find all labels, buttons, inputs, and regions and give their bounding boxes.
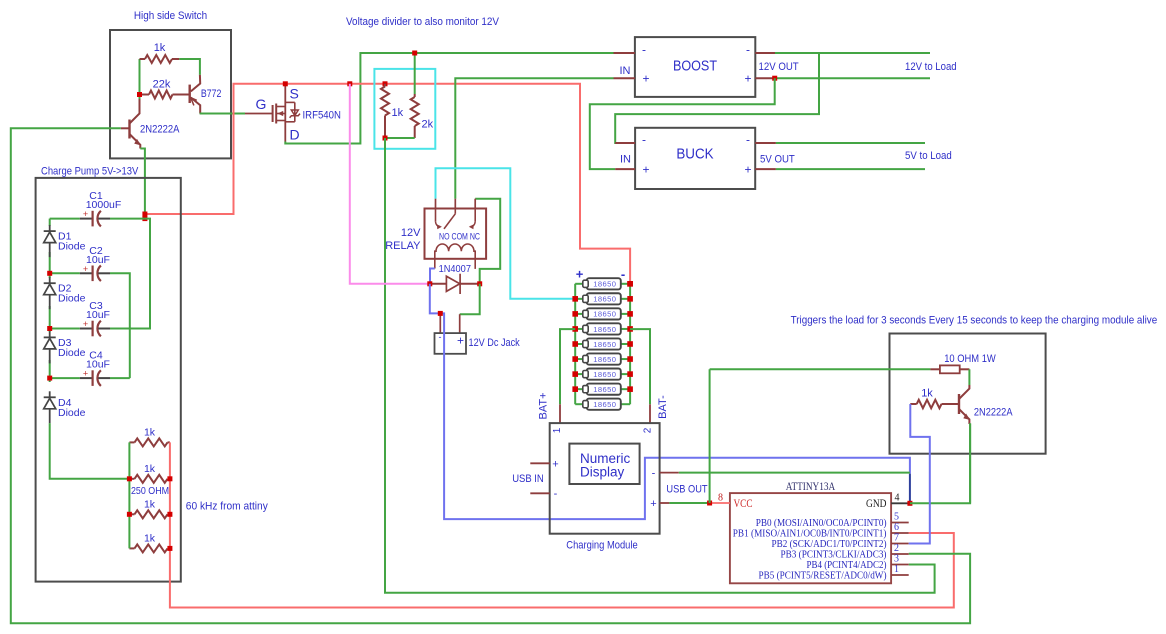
label bank 1k #3 — [144, 498, 156, 510]
wire 12V OUT- to load (green) — [775, 52, 930, 54]
label PB5 — [759, 571, 887, 582]
capacitor C2 — [50, 264, 110, 281]
capacitor C1 — [50, 209, 110, 226]
label PB4 — [807, 560, 887, 571]
label USB IN — [512, 473, 544, 485]
label pin number 8 — [718, 493, 723, 504]
wire 2k top to BOOST IN- line (green vertical) — [414, 53, 416, 94]
wire MOSFET drain loop to BOOST IN- (green) — [285, 53, 635, 144]
junction battery right cell4 — [627, 326, 633, 332]
svg-text:Voltage divider to also monito: Voltage divider to also monitor 12V — [346, 16, 500, 28]
svg-text:1N4007: 1N4007 — [439, 263, 471, 275]
USB OUT minus stub — [660, 472, 679, 474]
svg-text:-: - — [746, 43, 750, 57]
svg-text:2k: 2k — [422, 119, 434, 131]
label bank 1k #2 — [144, 463, 156, 475]
junction at 2k top on green — [412, 51, 417, 56]
label BOOST plus left — [642, 72, 649, 86]
label Charging Module — [566, 540, 637, 552]
trigger title — [791, 315, 1158, 327]
junction pump C2 row — [47, 271, 52, 276]
junction battery right cell7 — [627, 371, 633, 377]
svg-text:7: 7 — [894, 533, 899, 544]
svg-text:-: - — [554, 488, 558, 500]
label divider 1k — [392, 107, 404, 119]
label BUCK minus left — [642, 133, 646, 147]
IC U ATTINY13A box — [730, 493, 891, 583]
label 2N2222A (trigger) — [974, 407, 1013, 419]
label USB IN plus — [552, 458, 558, 470]
diode D4 — [44, 391, 56, 423]
High side Switch enclosure box — [110, 30, 231, 158]
wire VCC to 10 OHM (green) — [710, 368, 931, 370]
svg-text:PB0 (MOSI/AIN0/OC0A/PCINT0): PB0 (MOSI/AIN0/OC0A/PCINT0) — [756, 518, 887, 529]
svg-text:Diode: Diode — [58, 241, 86, 253]
svg-text:5V to Load: 5V to Load — [905, 150, 952, 162]
relay coil left pin stub — [434, 259, 436, 269]
label pin number 7 — [894, 533, 899, 544]
label pin 1 — [552, 427, 563, 433]
junction green at C1 out (lower) — [142, 216, 147, 221]
label BUCK — [676, 147, 714, 163]
junction bank right r2 — [167, 476, 172, 481]
wire Q1 emitter to charge pump (green) — [140, 149, 145, 219]
label D1 — [58, 231, 72, 243]
svg-text:250 OHM: 250 OHM — [131, 485, 169, 497]
svg-text:+: + — [744, 72, 751, 86]
pin 8 VCC stub — [712, 502, 730, 504]
svg-text:B772: B772 — [201, 88, 222, 100]
junction battery right cell1 — [627, 281, 633, 287]
junction battery left cell7 — [572, 371, 578, 377]
resistor R 1k (high side) — [140, 55, 180, 63]
USB IN plus stub — [530, 462, 549, 464]
wire trigger emitter down (green) — [968, 423, 971, 503]
junction bank left r2 — [127, 476, 132, 481]
label USB OUT — [666, 484, 707, 496]
wire 5V OUT+ to load (green) — [776, 168, 925, 170]
label BOOST — [673, 59, 717, 75]
svg-text:Charging Module: Charging Module — [566, 540, 637, 552]
svg-text:6: 6 — [894, 522, 899, 533]
svg-text:IRF540N: IRF540N — [303, 110, 341, 122]
svg-text:5V OUT: 5V OUT — [760, 154, 795, 166]
label C1 — [89, 190, 103, 202]
label GND — [866, 498, 887, 510]
svg-text:1k: 1k — [154, 42, 166, 54]
trigger enclosure box — [890, 334, 1046, 454]
label bank 1k #4 — [144, 532, 156, 544]
junction bank right r3 — [167, 512, 172, 517]
relay K1 12V RELAY — [425, 209, 487, 259]
junction pump C3 row — [47, 326, 52, 331]
display box Numeric Display — [569, 444, 639, 484]
label pin number 6 — [894, 522, 899, 533]
svg-text:+: + — [642, 72, 649, 86]
battery cell 18650 #6 — [575, 353, 630, 364]
junction pump C4 row — [47, 376, 52, 381]
wire 1k-left to 22k junction (green vertical) — [139, 59, 141, 99]
junction VCC node — [707, 501, 712, 506]
label BAT+ — [538, 392, 550, 419]
svg-text:USB OUT: USB OUT — [666, 484, 707, 496]
label D4 — [58, 397, 72, 409]
wire diode cathode to jack plus (green) — [460, 284, 480, 314]
resistor R 22k — [140, 91, 190, 99]
svg-text:10uF: 10uF — [86, 359, 110, 371]
junction battery right cell2 — [627, 296, 633, 302]
label trigger 1k — [921, 388, 933, 400]
label D2 Diode — [58, 293, 86, 305]
diode D1 — [44, 225, 56, 257]
jack minus pin stub — [439, 313, 441, 333]
svg-text:18650: 18650 — [593, 355, 616, 364]
wire VCC feed vertical (green) — [709, 369, 711, 503]
svg-text:1k: 1k — [144, 463, 156, 475]
svg-text:5: 5 — [894, 512, 899, 523]
svg-text:BAT+: BAT+ — [538, 392, 550, 419]
label battery plus — [576, 267, 584, 282]
label BUCK plus left — [642, 163, 649, 177]
label pin 2 — [643, 427, 654, 433]
label BOOST plus right — [744, 72, 751, 86]
svg-text:12V Dc Jack: 12V Dc Jack — [469, 337, 521, 349]
relay coil right pin stub — [474, 259, 476, 269]
svg-text:60 kHz from attiny: 60 kHz from attiny — [186, 501, 268, 513]
junction battery right cell5 — [627, 341, 633, 347]
wire 1k-right to B772 collector (green) — [179, 59, 200, 75]
diode D 1N4007 — [430, 274, 480, 294]
USB OUT plus stub — [660, 502, 670, 504]
svg-text:1k: 1k — [392, 107, 404, 119]
wire USB OUT+ to VCC junction (green) — [669, 502, 709, 504]
svg-text:2: 2 — [643, 427, 654, 433]
label ATTINY13A — [786, 481, 836, 493]
capacitor C4 — [50, 369, 110, 386]
label 5V to Load — [905, 150, 952, 162]
pin 2 PB3 stub — [891, 553, 909, 555]
svg-text:+: + — [552, 458, 558, 470]
svg-text:D: D — [290, 127, 300, 143]
transistor Q B772 — [190, 75, 201, 114]
label C4 — [89, 350, 103, 362]
diode D2 — [44, 277, 56, 309]
voltage divider cyan selection box — [374, 69, 435, 149]
label C3 value — [86, 309, 110, 321]
label BOOST minus left — [642, 43, 646, 57]
wire relay coil to diode anode (blue) — [430, 269, 435, 284]
label D3 — [58, 337, 72, 349]
battery cell 18650 #9 — [575, 399, 630, 410]
svg-text:IN: IN — [620, 154, 631, 166]
svg-text:ATTINY13A: ATTINY13A — [786, 481, 836, 493]
label D — [290, 127, 300, 143]
wire bank left rail (green) — [128, 442, 130, 548]
label pin number 3 — [894, 554, 899, 565]
svg-text:-: - — [439, 332, 442, 342]
svg-text:18650: 18650 — [593, 370, 616, 379]
label 5V OUT — [760, 154, 795, 166]
junction diode anode — [427, 281, 432, 286]
svg-text:-: - — [642, 43, 646, 57]
junction battery right cell8 — [627, 386, 633, 392]
svg-text:3: 3 — [894, 554, 899, 565]
wire GND to trigger emitter (green) — [910, 423, 970, 503]
junction red at C1 out (upper) — [142, 212, 147, 217]
wire PB3 to high side base (green) — [11, 128, 970, 623]
label C3 — [89, 300, 103, 312]
label C2 — [89, 245, 103, 257]
junction battery right cell3 — [627, 311, 633, 317]
svg-text:High side Switch: High side Switch — [134, 10, 207, 22]
label RELAY — [385, 240, 421, 252]
label jack minus — [439, 332, 442, 342]
svg-text:1: 1 — [552, 427, 563, 433]
resistor bank 1k #1 — [129, 438, 170, 446]
svg-text:RELAY: RELAY — [385, 240, 421, 252]
wire C2 right to C4 row (green) — [110, 273, 130, 378]
wire BOOST OUT- down to BUCK IN- (green) — [615, 53, 819, 143]
label BUCK minus right — [746, 133, 750, 147]
BUCK IN- pin stub — [615, 142, 635, 144]
svg-text:18650: 18650 — [593, 385, 616, 394]
wire 5V OUT- to load (green) — [776, 142, 925, 144]
junction diode cathode — [477, 281, 482, 286]
junction bank left r3 — [127, 512, 132, 517]
svg-text:10 OHM 1W: 10 OHM 1W — [944, 353, 996, 365]
label PB3 — [781, 550, 887, 561]
resistor bank 1k #4 — [129, 544, 170, 552]
wire relay NC to diode cathode (green) — [475, 199, 500, 284]
battery cell 18650 #5 — [575, 338, 630, 349]
label 22k — [153, 79, 171, 91]
svg-text:-: - — [621, 267, 625, 282]
wire GND drop (navy) — [909, 474, 911, 504]
wire battery left rail (green) — [574, 284, 576, 404]
wire relay COM to BOOST IN+ (green) — [455, 78, 613, 199]
label BAT- — [657, 395, 669, 419]
wire 10 OHM to collector (green) — [968, 369, 970, 385]
label 12V Dc Jack — [469, 337, 521, 349]
label 12V OUT — [759, 61, 799, 73]
label pin number 2 — [894, 543, 899, 554]
svg-text:GND: GND — [866, 498, 887, 510]
resistor divider 2k — [411, 94, 419, 138]
resistor bank 1k #3 — [129, 510, 170, 518]
svg-text:10uF: 10uF — [86, 309, 110, 321]
label pin number 5 — [894, 512, 899, 523]
svg-text:4: 4 — [895, 493, 900, 504]
label C2 value — [86, 254, 110, 266]
pin 1 PB5 stub — [891, 574, 909, 576]
BOOST OUT+ pin stub — [755, 77, 775, 79]
svg-text:+: + — [650, 498, 656, 510]
label bank 1k #1 — [144, 426, 156, 438]
junction red at pink tap — [347, 81, 352, 86]
svg-text:-: - — [652, 468, 656, 480]
BUCK OUT+ pin stub — [755, 168, 776, 170]
wire bank right rail to PB1 net (red) — [170, 442, 954, 607]
wire 12V OUT+ to load (green) — [775, 77, 930, 79]
wire BAT- (green) — [630, 329, 650, 404]
svg-text:1k: 1k — [921, 388, 933, 400]
wire pump ladder (green segments) — [50, 219, 130, 479]
junction BOOST OUT+ — [772, 76, 777, 81]
charging module pin2 stub — [649, 404, 651, 423]
label IRF540N — [303, 110, 341, 122]
svg-text:+: + — [576, 267, 584, 282]
label pin number 1 — [894, 564, 899, 575]
wire BOOST OUT+ down to BUCK IN+ (green) — [590, 78, 775, 169]
svg-text:+: + — [457, 334, 464, 348]
battery cell 18650 #4 — [575, 323, 630, 334]
svg-text:BOOST: BOOST — [673, 59, 717, 75]
svg-text:2N2222A: 2N2222A — [140, 124, 180, 136]
label BUCK IN — [620, 154, 631, 166]
battery cell 18650 #7 — [575, 369, 630, 380]
svg-text:-: - — [746, 133, 750, 147]
wire jack minus to charging module (blue) — [430, 284, 910, 519]
label BOOST minus right — [746, 43, 750, 57]
svg-text:PB2 (SCK/ADC1/T0/PCINT2): PB2 (SCK/ADC1/T0/PCINT2) — [772, 539, 887, 550]
svg-text:+: + — [744, 163, 751, 177]
BOOST IN+ pin stub — [614, 77, 635, 79]
junction battery left cell4 — [572, 326, 578, 332]
svg-text:PB1 (MISO/AIN1/OC0B/INT0/PCINT: PB1 (MISO/AIN1/OC0B/INT0/PCINT1) — [733, 529, 887, 540]
junction battery left cell5 — [572, 341, 578, 347]
Charge Pump enclosure box — [36, 178, 181, 582]
wire C3 right to C1 node (green) — [110, 219, 150, 329]
svg-text:2: 2 — [894, 543, 899, 554]
module U BUCK box — [635, 128, 755, 189]
wire C1 right to junction (green) — [110, 218, 145, 220]
svg-text:Diode: Diode — [58, 407, 86, 419]
module U Charging Module box — [550, 423, 660, 534]
label 250 OHM — [131, 485, 169, 497]
label B772 — [201, 88, 222, 100]
svg-text:S: S — [290, 86, 299, 102]
label C4 value — [86, 359, 110, 371]
pin 4 GND stub — [891, 502, 910, 504]
label 12V — [401, 227, 421, 239]
BOOST IN- pin stub — [614, 52, 635, 54]
wire divider bottom link (green) — [385, 137, 415, 139]
label USB OUT plus — [650, 498, 656, 510]
svg-text:12V OUT: 12V OUT — [759, 61, 799, 73]
junction battery right cell6 — [627, 356, 633, 362]
svg-text:8: 8 — [718, 493, 723, 504]
resistor R 10 OHM 1W — [930, 365, 969, 373]
label 1k (high side) — [154, 42, 166, 54]
svg-text:1: 1 — [894, 564, 899, 575]
svg-text:18650: 18650 — [593, 280, 616, 289]
resistor bank 1k #2 — [129, 475, 170, 483]
label 10 OHM 1W — [944, 353, 996, 365]
label 12V to Load — [905, 61, 957, 73]
junction battery left cell3 — [572, 311, 578, 317]
pin 3 PB4 stub — [891, 564, 909, 566]
svg-text:BAT-: BAT- — [657, 395, 669, 419]
wire relay NO to battery via cyan — [436, 168, 576, 298]
BUCK OUT- pin stub — [755, 142, 776, 144]
svg-text:+: + — [642, 163, 649, 177]
capacitor C3 — [50, 319, 110, 336]
transistor Q 2N2222A (trigger) — [959, 385, 970, 424]
label NO COM NC — [439, 232, 480, 243]
label C1 value — [86, 199, 122, 211]
svg-text:Triggers the load for 3 second: Triggers the load for 3 seconds Every 15… — [791, 315, 1158, 327]
resistor trigger 1k — [910, 400, 959, 408]
connector J 12V Dc Jack box — [435, 333, 467, 354]
label Display — [580, 465, 625, 480]
label PB1 — [733, 529, 887, 540]
svg-text:10uF: 10uF — [86, 254, 110, 266]
diode D3 — [44, 331, 56, 363]
svg-text:18650: 18650 — [593, 295, 616, 304]
label 2N2222A (high side) — [140, 124, 180, 136]
battery cell 18650 #8 — [575, 384, 630, 395]
pin 5 PB0 stub — [891, 522, 909, 524]
svg-text:IN: IN — [620, 65, 631, 77]
svg-text:2N2222A: 2N2222A — [974, 407, 1013, 419]
label 60 kHz from attiny — [186, 501, 268, 513]
svg-text:BUCK: BUCK — [676, 147, 714, 163]
pin 7 PB2 stub — [891, 543, 909, 545]
junction bank right r4 — [167, 546, 172, 551]
junction divider tap — [383, 136, 388, 141]
label 1N4007 — [439, 263, 471, 275]
wire gate drive from B772 emitter (green) — [200, 113, 245, 115]
svg-text:1k: 1k — [144, 498, 156, 510]
wire PB2 to trigger base (blue) — [909, 404, 930, 544]
wire 13V red net from charge pump to battery minus — [145, 84, 630, 284]
svg-text:PB4 (PCINT4/ADC2): PB4 (PCINT4/ADC2) — [807, 560, 887, 571]
svg-text:PB5 (PCINT5/RESET/ADC0/dW): PB5 (PCINT5/RESET/ADC0/dW) — [759, 571, 887, 582]
svg-text:1k: 1k — [144, 426, 156, 438]
High side Switch title — [134, 10, 207, 22]
junction jack minus on blue — [438, 311, 443, 316]
junction red at divider 1k — [383, 81, 388, 86]
label G — [256, 96, 267, 112]
label BOOST IN — [620, 65, 631, 77]
svg-text:1k: 1k — [144, 532, 156, 544]
transistor Q1 2N2222A (high side) — [121, 99, 141, 149]
svg-text:18650: 18650 — [593, 400, 616, 409]
label divider 2k — [422, 119, 434, 131]
label PB0 — [756, 518, 887, 529]
label PB2 — [772, 539, 887, 550]
label BUCK plus right — [744, 163, 751, 177]
BOOST OUT- pin stub — [755, 52, 775, 54]
relay pin stubs NO COM NC — [436, 199, 476, 209]
label jack plus — [457, 334, 464, 348]
junction red at MOSFET S — [283, 81, 288, 86]
svg-text:NO COM NC: NO COM NC — [439, 232, 480, 243]
svg-text:12V to Load: 12V to Load — [905, 61, 957, 73]
svg-text:-: - — [642, 133, 646, 147]
battery cell 18650 #2 — [575, 293, 630, 304]
junction Q1 collector node — [137, 92, 142, 97]
svg-text:Diode: Diode — [58, 347, 86, 359]
resistor divider 1k — [381, 84, 389, 138]
label D1 Diode — [58, 241, 86, 253]
label battery minus — [621, 267, 625, 282]
label VCC — [734, 498, 753, 510]
USB IN minus stub — [530, 492, 549, 494]
wire USB OUT- to GND net (green) — [679, 472, 910, 474]
svg-text:G: G — [256, 96, 267, 112]
voltage divider title — [346, 16, 500, 28]
